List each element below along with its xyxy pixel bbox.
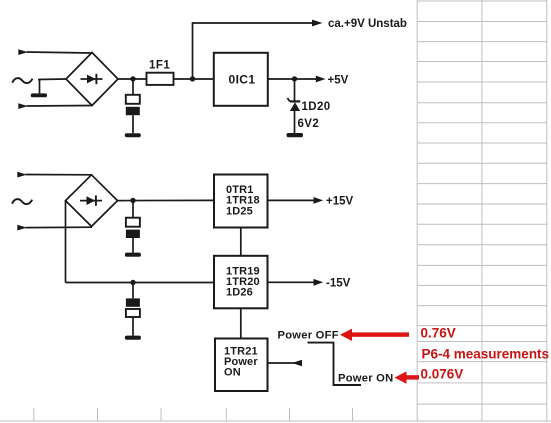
diode inside B2 [80,195,102,205]
wire [132,283,134,299]
switch level line OFF [308,342,335,344]
node [130,76,135,81]
ground [125,336,141,340]
arrowhead into 1TR21 [292,360,302,366]
wire between 1TR19 and 1TR21 [240,308,242,338]
svg-text:0.076V: 0.076V [421,366,464,381]
ground [31,93,47,97]
bridge rectifier B1 [66,53,118,106]
switch level line ON [333,384,361,386]
wire into 1TR21 [268,362,303,364]
wire [39,80,41,94]
wire [132,115,134,133]
wire lower rail [66,282,215,284]
capacitor C1 plate filled [126,107,140,115]
red arrow to Power ON [395,371,420,383]
svg-text:6V2: 6V2 [298,118,320,130]
capacitor C2 plate [126,218,140,227]
wire upper rail [118,199,215,201]
wire [132,79,134,95]
wire [27,105,93,108]
svg-text:-15V: -15V [326,278,351,290]
svg-text:0IC1: 0IC1 [229,73,256,87]
regulator 0TR1 [214,175,268,228]
wire [294,79,296,101]
wire [268,281,315,283]
wire to +9V rail [193,23,314,79]
arrow -15V [314,279,324,286]
wire [268,78,316,80]
svg-text:+5V: +5V [328,74,349,86]
arrow +5V [316,76,326,83]
arrow +15V [314,197,324,204]
AC source symbol 1 [12,78,32,83]
wire [118,78,147,80]
capacitor C1 plate [126,95,140,104]
wire [132,238,134,253]
svg-text:P6-4 measurements: P6-4 measurements [422,346,550,361]
fuse F1 [147,73,174,85]
zener diode 1D20 [287,98,300,111]
wire between 0TR1 and 1TR19 [240,228,242,256]
svg-text:+15V: +15V [326,196,354,208]
svg-text:0.76V: 0.76V [421,326,456,341]
wire [294,110,296,133]
AC source symbol 2 [12,199,32,204]
arrow +9V [312,20,323,27]
svg-text:1D25: 1D25 [226,205,253,217]
svg-text:Power ON: Power ON [338,373,393,385]
regulator 1TR21 [215,339,268,392]
svg-text:1D20: 1D20 [302,101,331,113]
node [130,280,135,285]
diode inside B1 [81,74,103,84]
wire [268,199,315,201]
wire [132,317,134,336]
capacitor C3 plate filled [126,298,140,306]
wire [26,226,93,228]
svg-text:ON: ON [224,367,241,379]
svg-text:ca.+9V Unstab: ca.+9V Unstab [328,18,407,30]
terminal arrow lower 1 [17,172,27,178]
regulator 0IC1 [214,53,268,106]
wire [26,174,92,176]
switch step line [333,343,335,385]
node [190,76,195,81]
ground [287,133,304,137]
wire [132,201,134,218]
red arrow to Power OFF [340,329,409,341]
node [130,198,135,203]
node [292,76,297,81]
wire [174,78,215,80]
ground [125,253,141,257]
wire [38,78,66,81]
terminal arrow top-left 2 [18,103,28,109]
regulator 1TR19 [214,256,268,308]
bridge rectifier B2 [66,175,118,227]
svg-text:1D26: 1D26 [226,287,253,299]
terminal arrow lower 2 [17,225,27,231]
capacitor C3 plate [126,309,140,317]
capacitor C2 plate filled [126,230,140,238]
svg-text:1F1: 1F1 [149,60,170,72]
wire from left vertex down [65,201,67,283]
wire [27,52,93,53]
terminal arrow top-left 1 [18,49,28,55]
svg-text:Power OFF: Power OFF [278,330,339,342]
ground [125,133,141,137]
